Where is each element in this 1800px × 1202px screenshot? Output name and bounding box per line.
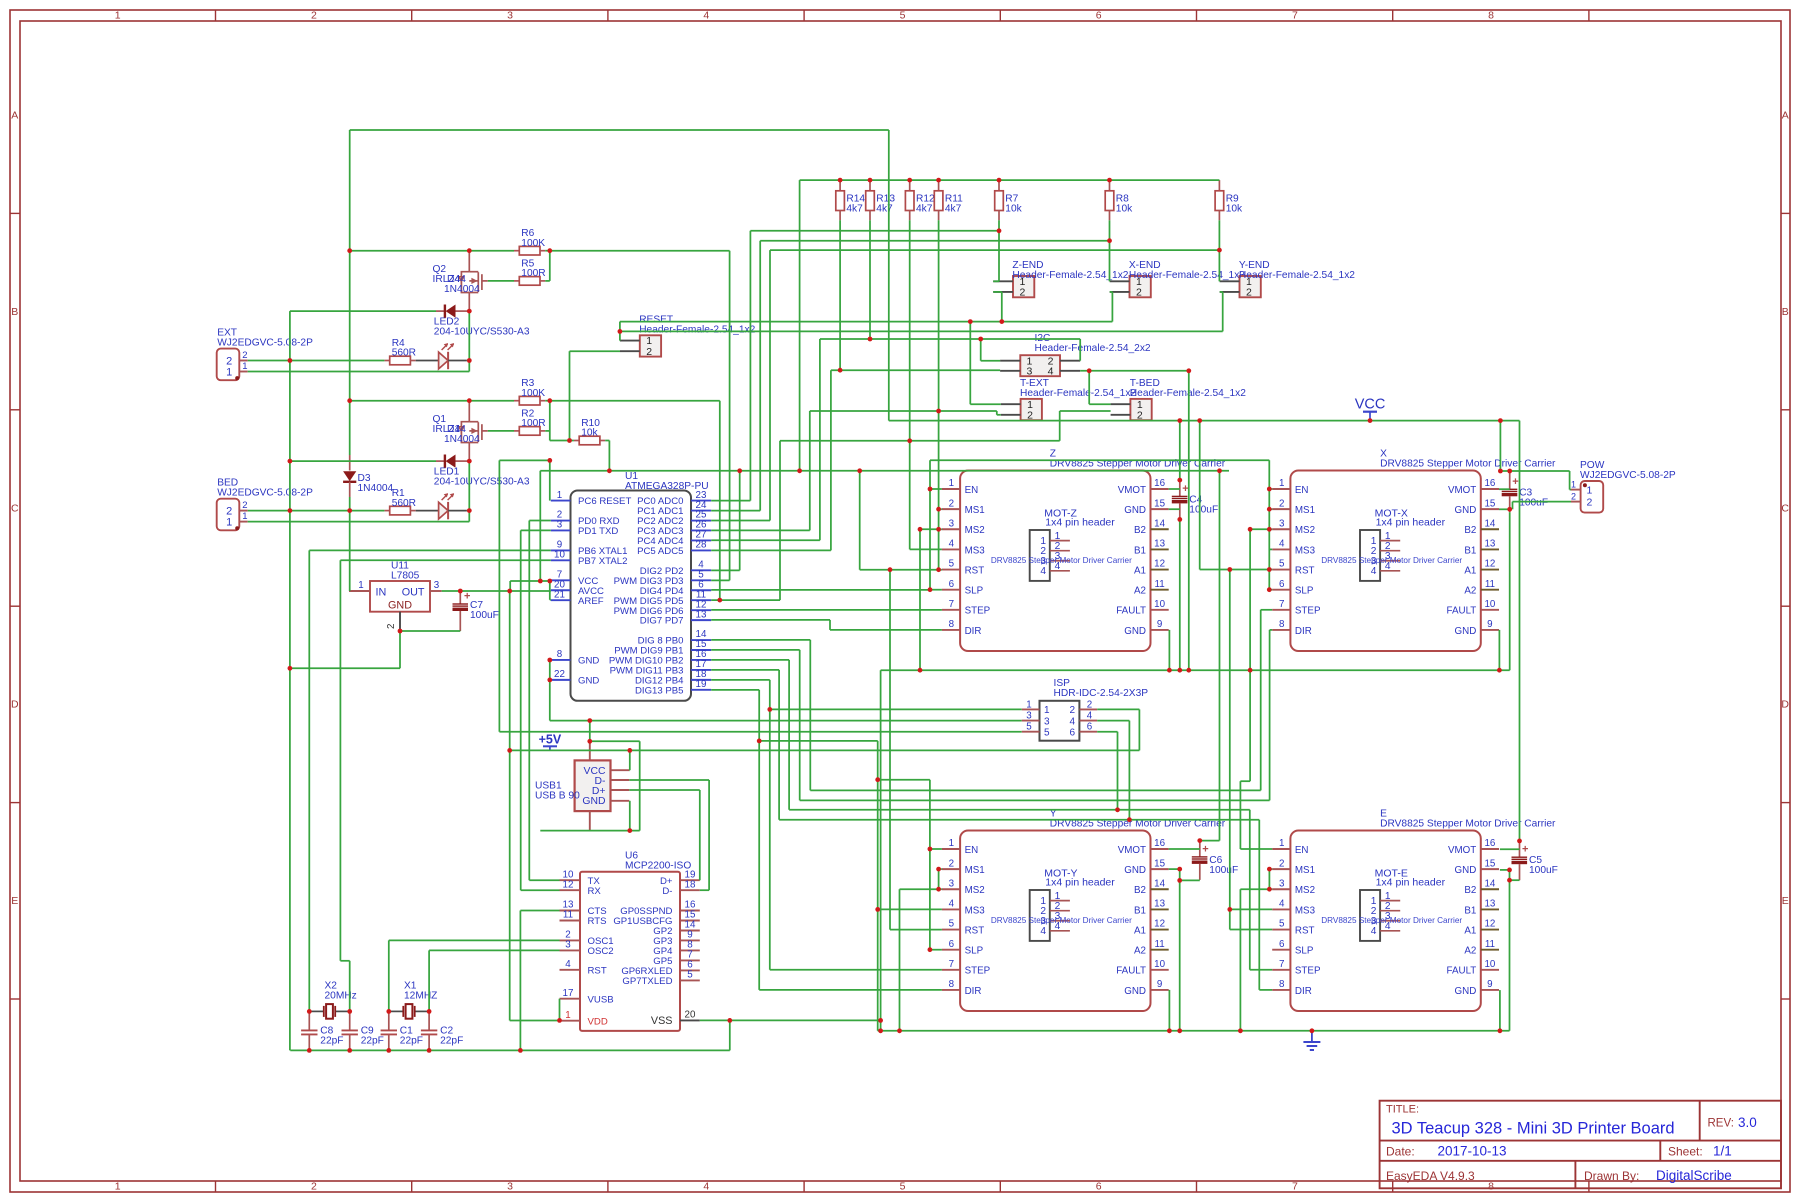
wire [550, 720, 1022, 722]
wire [550, 659, 551, 661]
wire [1240, 888, 1269, 890]
svg-text:GND: GND [1124, 865, 1146, 876]
svg-text:4k7: 4k7 [916, 203, 933, 214]
junction [1167, 1028, 1172, 1033]
svg-text:1: 1 [557, 490, 562, 501]
wire [930, 589, 942, 591]
svg-text:VDD: VDD [588, 1016, 608, 1027]
svg-text:100R: 100R [521, 268, 545, 279]
module E right pins [1481, 848, 1499, 850]
svg-text:D: D [1781, 699, 1789, 711]
svg-text:2: 2 [1246, 287, 1252, 299]
wire [1259, 989, 1272, 991]
svg-text:RX: RX [588, 886, 602, 897]
svg-text:3D Teacup 328 - Mini 3D Printe: 3D Teacup 328 - Mini 3D Printer Board [1392, 1120, 1675, 1138]
junction [427, 1048, 432, 1053]
wire [550, 679, 551, 681]
svg-text:STEP: STEP [1295, 966, 1321, 977]
svg-text:2: 2 [1087, 699, 1092, 710]
wire [521, 529, 551, 531]
junction [907, 178, 912, 183]
header Y-END [1240, 276, 1261, 297]
junction [928, 847, 933, 852]
wire [739, 471, 741, 571]
wire [1509, 870, 1511, 880]
wire [780, 440, 1060, 442]
resistor R9 [1218, 180, 1220, 191]
svg-text:B1: B1 [1134, 905, 1146, 916]
wire [711, 639, 810, 641]
wire [749, 231, 751, 501]
junction [398, 629, 403, 634]
junction [1267, 527, 1272, 532]
wire [1569, 471, 1571, 490]
svg-text:2: 2 [949, 498, 954, 509]
resistor R12 [909, 180, 911, 191]
svg-text:5: 5 [1026, 722, 1032, 733]
wire [830, 629, 942, 631]
capacitor C7 [459, 591, 461, 604]
wire [590, 740, 640, 742]
svg-text:PC5 ADC5: PC5 ADC5 [637, 546, 683, 557]
junction [347, 1009, 352, 1014]
wire [970, 403, 1001, 405]
svg-text:A: A [11, 110, 18, 122]
crystal X2 [309, 1010, 324, 1012]
wire [629, 801, 631, 831]
wire [711, 510, 760, 512]
svg-text:10: 10 [1484, 599, 1495, 610]
wire [759, 241, 761, 511]
wire [700, 1019, 881, 1021]
junction [1267, 487, 1272, 492]
wire [349, 497, 351, 511]
svg-text:B1: B1 [1464, 905, 1476, 916]
wire [349, 401, 351, 455]
wire [1169, 848, 1200, 850]
svg-text:15: 15 [1484, 498, 1495, 509]
svg-text:19: 19 [696, 679, 707, 690]
svg-text:8: 8 [949, 619, 955, 630]
svg-text:16: 16 [1154, 478, 1165, 489]
junction [1507, 507, 1512, 512]
wire [1080, 370, 1189, 372]
junction [797, 468, 802, 473]
capacitor C3 [1509, 473, 1511, 489]
svg-text:VCC: VCC [1355, 397, 1386, 413]
wire [1001, 292, 1003, 322]
wire [1270, 629, 1273, 631]
wire [289, 668, 291, 1050]
wire [711, 589, 930, 591]
wire [939, 508, 942, 510]
svg-text:Drawn By:: Drawn By: [1584, 1169, 1639, 1183]
header MOT-X [1360, 530, 1380, 581]
wire [350, 250, 470, 252]
wire [429, 949, 559, 951]
junction [936, 867, 941, 872]
diode D3 [349, 455, 351, 471]
svg-text:3: 3 [1027, 365, 1033, 377]
wire [509, 591, 511, 1021]
wire [939, 868, 942, 870]
svg-text:15: 15 [1484, 858, 1495, 869]
wire [869, 220, 871, 339]
junction [757, 739, 762, 744]
wire [349, 130, 351, 251]
resistor R1 [384, 510, 389, 512]
junction [997, 178, 1002, 183]
svg-text:A2: A2 [1134, 586, 1146, 597]
wire [570, 440, 574, 442]
header ISP [1040, 701, 1080, 741]
wire [769, 680, 771, 970]
wire [878, 779, 930, 781]
wire [929, 780, 931, 950]
svg-text:20MHz: 20MHz [325, 990, 357, 1001]
svg-text:10: 10 [1484, 959, 1495, 970]
svg-text:8: 8 [1279, 619, 1285, 630]
wire [1499, 488, 1510, 490]
LED LED1 wiring [416, 510, 439, 512]
svg-text:STEP: STEP [1295, 606, 1321, 617]
wire [540, 470, 1229, 472]
wire [1117, 732, 1119, 810]
wire [1097, 720, 1129, 722]
svg-text:GND: GND [1455, 626, 1477, 637]
svg-text:14: 14 [1154, 878, 1165, 889]
svg-text:10: 10 [1154, 599, 1165, 610]
wire [1180, 879, 1200, 881]
svg-text:9: 9 [1487, 619, 1492, 630]
wire [1218, 220, 1220, 281]
svg-text:7: 7 [1292, 9, 1298, 21]
svg-text:1: 1 [1026, 699, 1031, 710]
svg-text:C: C [1781, 502, 1789, 514]
wire [469, 400, 514, 402]
capacitor C4 [1179, 480, 1181, 496]
wire [498, 460, 500, 731]
wire [1499, 990, 1501, 1031]
diode D1 [436, 460, 445, 462]
wire [860, 569, 942, 571]
wire [1239, 781, 1241, 849]
junction [627, 828, 632, 833]
wire [888, 130, 890, 421]
svg-text:STEP: STEP [965, 606, 991, 617]
junction [907, 438, 912, 443]
wire [1169, 508, 1180, 510]
wire [930, 459, 1269, 461]
svg-text:100K: 100K [521, 238, 545, 249]
svg-text:1: 1 [1044, 705, 1050, 716]
wire [878, 908, 942, 910]
svg-text:3: 3 [949, 518, 955, 529]
svg-text:E: E [11, 895, 18, 907]
junction [1227, 907, 1232, 912]
junction [868, 337, 873, 342]
wire [1218, 280, 1220, 282]
svg-text:8: 8 [557, 649, 563, 660]
wire [819, 339, 821, 540]
capacitor C8 [308, 1011, 310, 1030]
junction [347, 508, 352, 513]
svg-text:MS3: MS3 [965, 905, 986, 916]
svg-text:1x4 pin header: 1x4 pin header [1376, 877, 1446, 889]
module Y right pins [1151, 848, 1169, 850]
svg-text:17: 17 [563, 988, 574, 999]
wire [540, 830, 639, 832]
svg-text:GP7TXLED: GP7TXLED [622, 976, 672, 987]
svg-text:RST: RST [965, 565, 985, 576]
svg-text:EasyEDA V4.9.3: EasyEDA V4.9.3 [1386, 1169, 1475, 1183]
svg-text:2: 2 [1279, 498, 1284, 509]
svg-text:4: 4 [1040, 566, 1046, 577]
wire [969, 322, 971, 405]
wire [700, 889, 709, 891]
junction [1267, 587, 1272, 592]
svg-text:22pF: 22pF [400, 1035, 423, 1046]
wire [1498, 630, 1500, 670]
svg-text:2: 2 [242, 350, 247, 361]
svg-text:13: 13 [1484, 539, 1495, 550]
svg-text:PD1 TXD: PD1 TXD [578, 526, 618, 537]
wire [1059, 411, 1061, 441]
wire [1179, 869, 1181, 880]
svg-text:C: C [11, 502, 19, 514]
wire [759, 740, 878, 742]
wire [248, 510, 385, 512]
junction [1227, 567, 1232, 572]
wire [770, 969, 942, 971]
module Z left pins [942, 488, 960, 490]
svg-text:1: 1 [1587, 484, 1593, 496]
svg-text:2: 2 [386, 624, 397, 629]
svg-text:7: 7 [949, 599, 954, 610]
wire [442, 590, 551, 592]
capacitor C2 [428, 1011, 430, 1030]
wire [889, 570, 891, 930]
junction [427, 1009, 432, 1014]
svg-text:2017-10-13: 2017-10-13 [1438, 1144, 1507, 1159]
wire [520, 910, 559, 912]
svg-text:13: 13 [1484, 899, 1495, 910]
junction [1177, 668, 1182, 673]
svg-text:7: 7 [1279, 959, 1284, 970]
svg-text:22: 22 [554, 669, 565, 680]
junction [538, 579, 543, 584]
wire [711, 520, 770, 522]
diode body [444, 305, 446, 318]
junction [347, 1048, 352, 1053]
junction [1517, 839, 1522, 844]
svg-text:4: 4 [1048, 365, 1054, 377]
junction [1498, 469, 1503, 474]
svg-text:REV:: REV: [1708, 1118, 1734, 1130]
wire [620, 321, 1113, 323]
junction [1507, 868, 1512, 873]
wire [550, 250, 730, 252]
wire [510, 580, 551, 582]
svg-text:20: 20 [685, 1010, 696, 1021]
header X-END [1130, 276, 1151, 297]
svg-text:HDR-IDC-2.54-2X3P: HDR-IDC-2.54-2X3P [1054, 688, 1149, 699]
wire [1570, 489, 1571, 491]
wire [1268, 460, 1270, 590]
svg-text:A1: A1 [1134, 925, 1146, 936]
wire [711, 669, 779, 671]
wire [939, 528, 942, 530]
svg-text:4: 4 [703, 9, 709, 21]
wire [711, 659, 789, 661]
wire [1269, 630, 1271, 801]
junction [1310, 1028, 1315, 1033]
svg-text:1: 1 [949, 838, 954, 849]
svg-text:2: 2 [1279, 858, 1284, 869]
IC U6 left pins [560, 879, 581, 881]
svg-text:B2: B2 [1134, 885, 1146, 896]
junction [857, 468, 862, 473]
svg-text:USB B 90: USB B 90 [535, 791, 580, 802]
wire [569, 351, 571, 440]
wire [919, 529, 921, 670]
wire [545, 250, 550, 252]
wire [1249, 810, 1251, 970]
junction [936, 567, 941, 572]
module Y left pins [942, 848, 960, 850]
wire [468, 311, 470, 360]
junction [547, 658, 552, 663]
svg-text:GND: GND [388, 600, 412, 612]
junction [518, 1048, 523, 1053]
svg-text:8: 8 [1488, 9, 1494, 21]
junction [307, 1048, 312, 1053]
wire [789, 809, 1250, 811]
svg-text:Sheet:: Sheet: [1668, 1145, 1703, 1159]
junction [607, 468, 612, 473]
svg-text:2: 2 [1136, 287, 1142, 299]
wire [248, 371, 470, 373]
svg-text:204-10UYC/S530-A3: 204-10UYC/S530-A3 [434, 327, 530, 338]
svg-text:18: 18 [685, 879, 696, 890]
junction [999, 319, 1004, 324]
svg-text:4k7: 4k7 [945, 203, 962, 214]
wire [1179, 519, 1181, 670]
module E left pins [1272, 848, 1290, 850]
svg-text:4: 4 [565, 959, 571, 970]
svg-text:VSS: VSS [651, 1015, 673, 1027]
svg-text:11: 11 [1485, 939, 1495, 950]
svg-text:10k: 10k [1005, 203, 1022, 214]
title block [1380, 1101, 1781, 1189]
LED body [439, 352, 449, 369]
junction [737, 468, 742, 473]
junction [936, 178, 941, 183]
junction [1267, 567, 1272, 572]
svg-text:4k7: 4k7 [876, 203, 893, 214]
wire [248, 360, 385, 362]
wire [758, 690, 760, 990]
svg-text:2: 2 [242, 500, 247, 511]
svg-text:WJ2EDGVC-5.08-2P: WJ2EDGVC-5.08-2P [217, 488, 313, 499]
capacitor C6 [1199, 841, 1201, 857]
svg-text:SLP: SLP [965, 946, 984, 957]
svg-text:Header-Female-2.54_1x2: Header-Female-2.54_1x2 [1129, 270, 1245, 281]
header MOT-Z [1030, 530, 1050, 581]
wire [778, 670, 780, 820]
wire [290, 310, 436, 312]
svg-text:+: + [1512, 476, 1518, 488]
wire [290, 460, 436, 462]
svg-text:9: 9 [1157, 979, 1162, 990]
svg-text:28: 28 [696, 540, 707, 551]
wire [993, 291, 1002, 293]
wire [350, 400, 470, 402]
wire [809, 640, 811, 791]
svg-text:13: 13 [1154, 539, 1165, 550]
wire [1239, 889, 1241, 1031]
wire [549, 460, 551, 500]
wire [711, 569, 740, 571]
junction [467, 459, 472, 464]
svg-text:12: 12 [1154, 559, 1165, 570]
wire [1169, 868, 1180, 870]
svg-text:B1: B1 [1134, 545, 1146, 556]
junction [467, 358, 472, 363]
wire [510, 749, 1140, 751]
IC U6 VSS pin [680, 1019, 700, 1021]
junction [1186, 668, 1191, 673]
wire [519, 911, 521, 1051]
wire [605, 440, 609, 442]
wire [559, 999, 561, 1021]
header I2C [1020, 355, 1060, 376]
svg-text:11: 11 [1155, 579, 1165, 590]
wire [719, 401, 721, 600]
wire [1499, 508, 1510, 510]
svg-text:4: 4 [1279, 539, 1285, 550]
svg-text:B2: B2 [1134, 525, 1146, 536]
svg-text:7: 7 [1292, 1181, 1298, 1193]
junction [1177, 517, 1182, 522]
junction [1498, 418, 1503, 423]
wire [800, 179, 1220, 181]
svg-text:4: 4 [949, 899, 955, 910]
wire [340, 960, 349, 962]
svg-text:560R: 560R [392, 348, 416, 359]
capacitor C1 [388, 1011, 390, 1030]
wire [349, 961, 351, 1012]
wire [1219, 471, 1221, 841]
svg-text:SLP: SLP [1295, 946, 1314, 957]
wire [711, 539, 820, 541]
wire [779, 819, 1259, 821]
wire [1250, 969, 1272, 971]
svg-text:GND: GND [1455, 505, 1477, 516]
wire [996, 411, 998, 415]
svg-text:SLP: SLP [1295, 586, 1314, 597]
junction [1177, 418, 1182, 423]
wire [711, 619, 830, 621]
svg-text:3: 3 [565, 940, 571, 951]
wire [711, 689, 759, 691]
wire [629, 750, 631, 770]
connector POW [1581, 481, 1604, 513]
svg-text:100R: 100R [521, 418, 545, 429]
junction [386, 1048, 391, 1053]
svg-text:2: 2 [1069, 705, 1075, 716]
wire [488, 430, 514, 432]
